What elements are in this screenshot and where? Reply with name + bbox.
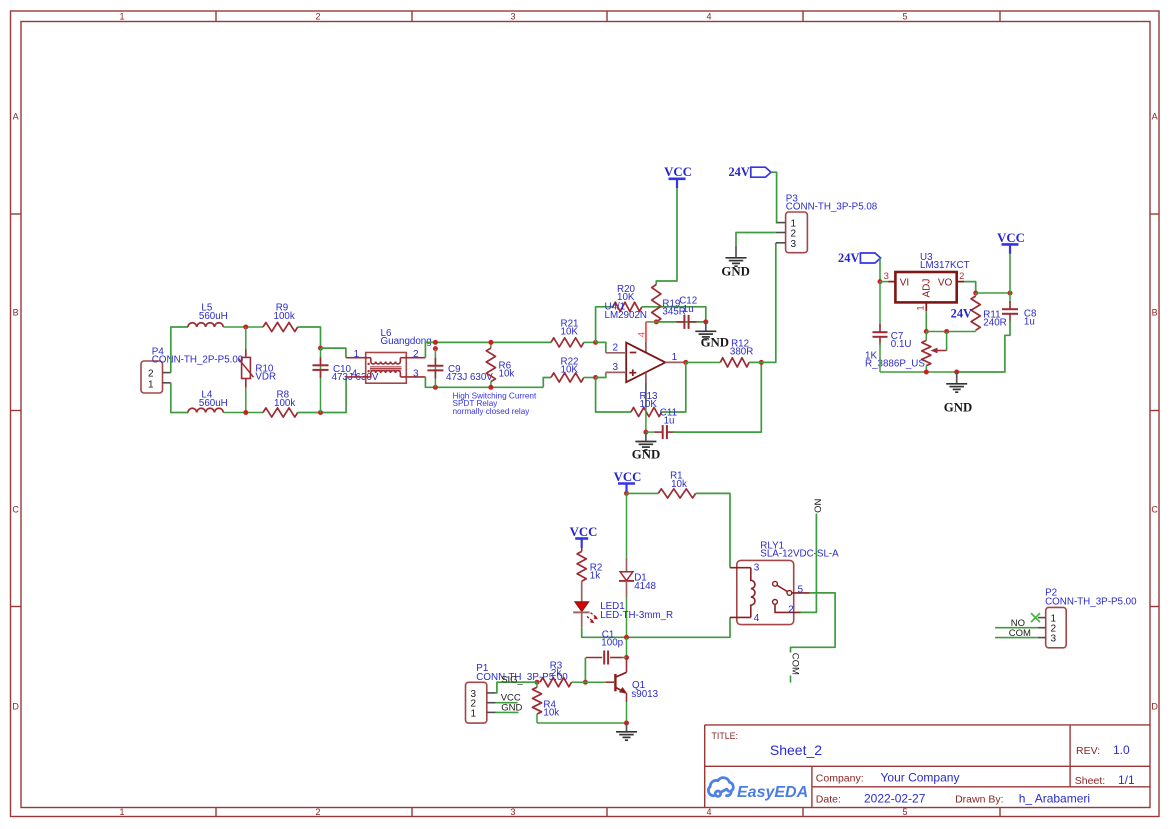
connector P4 — [141, 361, 163, 393]
svg-text:VDR: VDR — [255, 372, 276, 383]
inductor L4 — [188, 408, 223, 412]
svg-text:2: 2 — [613, 342, 619, 353]
svg-text:A: A — [13, 112, 19, 122]
op-amp pin 2 — [606, 352, 626, 354]
svg-text:3: 3 — [754, 562, 760, 573]
wire R1 to relay pin3 — [696, 493, 730, 567]
svg-text:Date:: Date: — [816, 794, 841, 806]
svg-text:240R: 240R — [983, 317, 1006, 328]
svg-text:GND: GND — [721, 265, 749, 279]
wire node to pin3 jog — [596, 372, 606, 377]
node VCC / R1 / D1 — [624, 491, 629, 496]
svg-text:560uH: 560uH — [199, 311, 228, 322]
wire VCC down to R19 — [656, 188, 677, 284]
net flag 24V (right) — [860, 253, 880, 263]
svg-text:NO: NO — [811, 499, 822, 513]
svg-text:s9013: s9013 — [631, 689, 658, 700]
svg-text:D: D — [1151, 702, 1158, 712]
capacitor C11 — [646, 431, 656, 433]
svg-text:EasyEDA: EasyEDA — [737, 784, 808, 801]
svg-text:R_3886P_US: R_3886P_US — [865, 359, 925, 370]
diode D1 4148 — [626, 493, 628, 557]
svg-text:Company:: Company: — [816, 773, 864, 785]
capacitor C7 — [879, 282, 881, 327]
svg-text:10K: 10K — [561, 326, 579, 337]
wire R12 right to P3 pin3 riser — [749, 243, 776, 363]
resistor R22 — [551, 373, 584, 382]
op-amp pin 1 output — [665, 361, 686, 363]
svg-text:24V: 24V — [838, 251, 859, 265]
node rail / D1 — [624, 635, 629, 640]
wire C11 right to feedback vertical — [673, 362, 761, 432]
svg-text:5: 5 — [902, 12, 907, 22]
connector P3 — [786, 212, 808, 253]
svg-text:SLA-12VDC-SL-A: SLA-12VDC-SL-A — [760, 548, 839, 559]
wire D1 node down to C1 node — [626, 637, 628, 657]
svg-text:10K: 10K — [640, 399, 658, 410]
node bottom rail / R10 — [243, 410, 248, 415]
svg-text:Drawn By:: Drawn By: — [955, 794, 1003, 806]
L6 pin 3 — [400, 376, 425, 378]
node R19 bottom / opamp pin4 — [654, 319, 659, 324]
relay pin 3 — [730, 567, 751, 569]
svg-text:GND: GND — [944, 401, 972, 415]
svg-text:10k: 10k — [671, 479, 687, 490]
wire 24V to P3 pin1 — [771, 172, 777, 222]
wire output down to R13 right — [662, 362, 686, 412]
wire node down to R13 — [596, 378, 631, 413]
wire branch to transformer pin1 — [321, 348, 346, 358]
svg-text:D: D — [12, 702, 19, 712]
svg-text:Guangdong: Guangdong — [381, 336, 432, 347]
wire R4 bottom rail to gnd node — [537, 722, 627, 724]
svg-text:2022-02-27: 2022-02-27 — [864, 792, 926, 806]
svg-text:normally closed relay: normally closed relay — [453, 407, 531, 416]
resistor R1 — [658, 489, 696, 498]
transformer L6 — [366, 353, 407, 384]
connector P1 — [466, 682, 487, 723]
svg-text:24V: 24V — [728, 165, 749, 179]
no-connect flag P2 pin1 — [1031, 613, 1040, 622]
node trimmer bottom — [924, 370, 929, 375]
node R12 right — [759, 360, 764, 365]
svg-text:VCC: VCC — [570, 525, 598, 539]
svg-text:1: 1 — [119, 807, 124, 817]
svg-text:4: 4 — [636, 332, 647, 337]
svg-text:100k: 100k — [274, 398, 295, 409]
wire VCC down — [1009, 254, 1011, 293]
EasyEDA logo — [708, 778, 733, 797]
node R3 left / R4 top — [535, 680, 540, 685]
U3 pin 2 VO — [957, 281, 965, 283]
svg-text:2: 2 — [148, 369, 154, 380]
U3 pin 1 ADJ — [925, 302, 927, 311]
node C9 bottom — [433, 385, 438, 390]
svg-text:4148: 4148 — [634, 581, 656, 592]
node C12 right / gnd — [703, 319, 708, 324]
svg-text:1: 1 — [672, 352, 678, 363]
L6 pin 1 — [346, 357, 371, 359]
wire bottom rail R8 to transformer pin4 — [298, 377, 346, 413]
wire R22 to non-inverting node — [584, 377, 596, 379]
svg-text:1u: 1u — [1024, 317, 1035, 328]
trimmer R_3386P_US — [925, 332, 927, 341]
svg-text:GND: GND — [632, 448, 660, 462]
svg-text:B: B — [1152, 308, 1158, 318]
svg-text:ADJ: ADJ — [922, 279, 933, 298]
wire pin5 to COM — [791, 593, 836, 653]
wire top rail L5 to R9 — [223, 326, 263, 328]
node top rail / R10 — [243, 325, 248, 330]
svg-text:3: 3 — [1051, 634, 1057, 645]
wire P1 pin2 VCC stub — [496, 702, 518, 704]
svg-text:0.1U: 0.1U — [891, 339, 912, 350]
svg-text:380R: 380R — [730, 347, 753, 358]
node C10 top branch — [318, 346, 323, 351]
node C9 top — [433, 340, 438, 345]
resistor R20 — [613, 302, 642, 311]
wire bottom rail L4 to R8 — [223, 412, 263, 414]
svg-text:2: 2 — [315, 12, 320, 22]
svg-text:Sheet_2: Sheet_2 — [770, 742, 822, 758]
svg-text:1k: 1k — [590, 571, 600, 582]
wire emitter to gnd — [626, 702, 628, 723]
wire P1 pin3 to SIG net — [496, 682, 537, 693]
svg-text:1/1: 1/1 — [1118, 773, 1135, 787]
svg-text:GND: GND — [501, 702, 522, 713]
wire output to R12 — [686, 361, 721, 363]
resistor R12 — [720, 358, 749, 367]
gnd rail wire — [880, 371, 957, 373]
node C11 left / gnd — [643, 430, 648, 435]
title block — [705, 724, 1150, 726]
node ADJ / trimmer top — [924, 329, 929, 334]
ground (C12) — [705, 322, 707, 331]
capacitor C1 — [586, 657, 602, 659]
svg-text:4: 4 — [754, 613, 760, 624]
resistor R9 — [263, 322, 298, 331]
op-amp pin 4 (V+) — [646, 321, 656, 323]
resistor R13 — [631, 407, 662, 416]
relay coil — [751, 568, 755, 618]
wire COM to P2 pin3 — [995, 637, 1038, 639]
resistor R21 — [551, 338, 584, 347]
svg-text:Your Company: Your Company — [881, 771, 960, 785]
resistor R11 — [975, 293, 977, 296]
svg-text:1u: 1u — [664, 416, 675, 427]
wire top rail R9 to C10 corner — [298, 327, 321, 348]
wire 24V down to VI — [879, 258, 881, 282]
wire lower rail to R22 — [543, 378, 551, 388]
wire P4 pin1 to bottom rail — [171, 383, 188, 413]
svg-text:VI: VI — [900, 277, 909, 288]
wire NO to P2 pin2 — [995, 627, 1038, 629]
node C10 bottom — [318, 410, 323, 415]
inductor L5 — [188, 323, 223, 327]
svg-text:3: 3 — [510, 12, 515, 22]
svg-text:4: 4 — [706, 807, 711, 817]
svg-text:3: 3 — [884, 271, 889, 282]
svg-text:CONN-TH_3P-P5.08: CONN-TH_3P-P5.08 — [786, 202, 878, 213]
svg-text:1: 1 — [354, 349, 360, 360]
wire node to pin 3 — [880, 281, 888, 283]
wire node to pin2 jog — [596, 342, 606, 352]
wire wiper branch down — [946, 332, 948, 351]
svg-text:LM317KCT: LM317KCT — [920, 260, 970, 271]
wire R21 to inverting node — [584, 341, 596, 343]
svg-text:4: 4 — [706, 12, 711, 22]
ground (P3 pin2) — [735, 246, 737, 257]
svg-text:COM: COM — [789, 653, 800, 675]
ground (U3) — [956, 372, 958, 383]
node base / C1 — [583, 680, 588, 685]
wire pin11 to gnd node — [645, 407, 647, 432]
svg-text:10k: 10k — [543, 708, 559, 719]
wire pin2 to NO — [801, 514, 817, 613]
svg-text:1.0: 1.0 — [1113, 743, 1130, 757]
resistor R19 — [652, 285, 661, 322]
transistor Q1 s9013 — [626, 658, 628, 673]
svg-text:100p: 100p — [601, 638, 623, 649]
svg-text:5: 5 — [798, 584, 804, 595]
svg-text:C: C — [1151, 505, 1158, 515]
svg-text:CONN-TH_2P-P5.00: CONN-TH_2P-P5.00 — [152, 355, 244, 366]
wire R20 to C12/GND node — [642, 307, 706, 322]
svg-text:24V: 24V — [951, 307, 972, 321]
capacitor C9 — [434, 349, 436, 388]
resistor R8 — [263, 408, 298, 417]
capacitor C12 — [676, 321, 684, 323]
node gnd — [954, 370, 959, 375]
op-amp pin 11 (V-) — [645, 372, 647, 383]
node inverting input — [593, 340, 598, 345]
resistor R2 — [581, 548, 583, 551]
wire node to C8/VCC — [976, 292, 1010, 294]
svg-text:1: 1 — [915, 305, 926, 310]
wire node up to R20 rail — [596, 307, 613, 343]
capacitor C10 — [320, 348, 322, 412]
svg-text:100k: 100k — [274, 311, 295, 322]
net flag 24V (top) — [751, 167, 771, 177]
ground (Q1) — [626, 723, 628, 731]
svg-text:3: 3 — [613, 362, 619, 373]
svg-text:h_ Arabameri: h_ Arabameri — [1019, 792, 1090, 806]
svg-text:1: 1 — [119, 12, 124, 22]
op-amp pin 3 — [606, 371, 626, 373]
svg-text:LED-TH-3mm_R: LED-TH-3mm_R — [600, 610, 673, 621]
relay pin 5 — [792, 592, 810, 594]
node R11 top — [973, 291, 978, 296]
svg-text:1: 1 — [471, 708, 477, 719]
svg-text:VO: VO — [938, 277, 953, 288]
wire LED to bottom rail — [582, 627, 627, 637]
wire transformer pin3 down to lower rail — [425, 377, 543, 387]
wire P3 pin2 to gnd — [736, 233, 776, 247]
relay pin 4 — [730, 616, 751, 618]
node C8 top — [1008, 291, 1013, 296]
svg-text:GND: GND — [701, 336, 729, 350]
resistor R4 — [536, 682, 538, 687]
svg-text:REV:: REV: — [1076, 745, 1100, 757]
svg-text:2: 2 — [788, 604, 794, 615]
ground (C11) — [645, 432, 647, 441]
node C1 right / collector — [624, 655, 629, 660]
svg-text:10K: 10K — [561, 364, 579, 375]
svg-text:3: 3 — [510, 807, 515, 817]
trimmer wiper arrow — [936, 350, 947, 352]
op-amp U4 LM2902N — [626, 343, 665, 383]
LED LED1 — [575, 602, 589, 612]
svg-text:VCC: VCC — [997, 231, 1025, 245]
wire base — [585, 681, 606, 683]
relay RLY1 SLA-12VDC-SL-A — [737, 560, 794, 624]
svg-text:2: 2 — [959, 271, 964, 282]
svg-text:3: 3 — [791, 239, 797, 250]
node output — [683, 360, 688, 365]
svg-text:TITLE:: TITLE: — [712, 731, 738, 741]
node wiper branch — [944, 329, 949, 334]
svg-text:1u: 1u — [683, 304, 694, 315]
resistor R6 — [490, 342, 492, 348]
svg-text:1: 1 — [148, 379, 154, 390]
wire P4 pin2 to top rail — [171, 327, 188, 373]
svg-text:VCC: VCC — [614, 470, 642, 484]
svg-text:5: 5 — [902, 807, 907, 817]
relay switch — [773, 581, 778, 586]
svg-text:VCC: VCC — [664, 165, 692, 179]
wire P3 pin1 — [775, 222, 778, 224]
svg-text:4: 4 — [352, 368, 358, 379]
wire VO to R11 top — [964, 282, 975, 293]
connector P2 — [1046, 607, 1067, 647]
wire VCC node to R1 — [627, 492, 659, 494]
wire P1 pin1 GND stub — [496, 711, 519, 713]
wire ADJ node to R11 bottom — [926, 331, 975, 333]
capacitor C8 — [1009, 293, 1011, 303]
svg-text:2: 2 — [315, 807, 320, 817]
node non-inverting input — [593, 375, 598, 380]
svg-text:2: 2 — [413, 349, 419, 360]
LED arrows — [587, 613, 596, 621]
wire C12 node to gnd node — [656, 321, 706, 323]
svg-text:COM: COM — [1009, 628, 1031, 639]
node emitter gnd — [624, 721, 629, 726]
svg-text:A: A — [1152, 112, 1158, 122]
svg-text:Sheet:: Sheet: — [1075, 775, 1105, 787]
svg-text:SIG_: SIG_ — [501, 674, 523, 685]
relay pin 2 — [775, 604, 801, 612]
svg-text:10k: 10k — [499, 369, 515, 380]
resistor R3 — [540, 678, 571, 687]
svg-text:CONN-TH_3P-P5.00: CONN-TH_3P-P5.00 — [1045, 597, 1137, 608]
varistor R10 VDR — [245, 327, 247, 349]
svg-text:C: C — [12, 505, 19, 515]
wire C1 left down to base node — [584, 658, 586, 683]
svg-text:B: B — [13, 308, 19, 318]
node VI / C7 — [878, 279, 883, 284]
L6 pin 4 — [346, 376, 371, 378]
svg-text:560uH: 560uH — [199, 398, 228, 409]
svg-text:3: 3 — [413, 368, 419, 379]
wire transformer pin2 up to mid rail — [425, 342, 551, 357]
regulator U3 LM317KCT — [888, 281, 895, 283]
L6 pin 2 — [400, 357, 425, 359]
svg-text:LM2902N: LM2902N — [605, 310, 647, 321]
wire relay pin4 to rail — [627, 617, 731, 637]
wire R3 right to base node — [572, 681, 586, 683]
wire C8 bottom to gnd rail — [957, 320, 1010, 372]
wire ADJ down — [925, 311, 927, 331]
